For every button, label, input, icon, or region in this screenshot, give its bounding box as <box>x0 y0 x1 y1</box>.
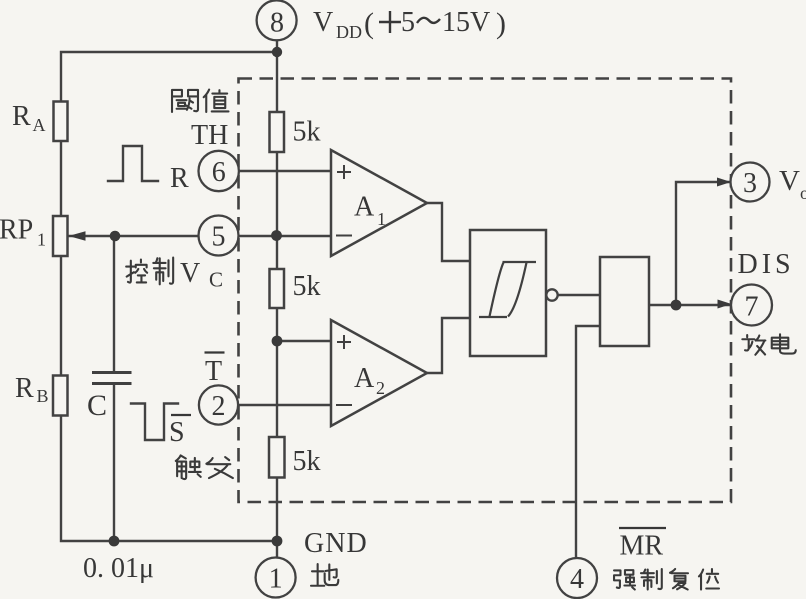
svg-text:5: 5 <box>401 7 415 38</box>
svg-text:5k: 5k <box>293 117 321 148</box>
svg-text:R: R <box>15 373 34 404</box>
svg-text:1: 1 <box>377 209 386 229</box>
svg-text:5k: 5k <box>293 446 321 477</box>
svg-text:MR: MR <box>620 531 664 562</box>
svg-text:R: R <box>12 101 31 132</box>
svg-text:2: 2 <box>376 378 385 398</box>
svg-text:1: 1 <box>269 564 283 595</box>
svg-text:2: 2 <box>212 391 226 422</box>
svg-text:4: 4 <box>570 564 584 595</box>
svg-text:0. 01μ: 0. 01μ <box>83 553 154 584</box>
svg-text:15V: 15V <box>442 7 490 38</box>
svg-text:8: 8 <box>270 8 284 39</box>
svg-text:DIS: DIS <box>738 249 795 280</box>
svg-text:A: A <box>354 192 375 223</box>
svg-text:1: 1 <box>37 230 46 250</box>
svg-text:V: V <box>779 165 800 197</box>
svg-text:V: V <box>313 7 333 38</box>
svg-text:(: ( <box>364 7 374 40</box>
svg-text:C: C <box>87 389 107 422</box>
svg-text:R: R <box>170 163 189 194</box>
svg-text:T: T <box>205 356 222 387</box>
svg-text:DD: DD <box>336 22 362 42</box>
svg-text:A: A <box>33 115 46 135</box>
svg-text:5: 5 <box>212 222 226 253</box>
svg-text:A: A <box>354 363 375 394</box>
svg-text:RP: RP <box>0 215 33 246</box>
svg-text:GND: GND <box>304 528 368 559</box>
svg-text:5k: 5k <box>293 271 321 302</box>
svg-text:6: 6 <box>212 157 226 188</box>
svg-text:V: V <box>180 258 200 289</box>
svg-text:3: 3 <box>743 168 757 199</box>
svg-text:): ) <box>496 7 506 40</box>
svg-text:o: o <box>800 183 806 203</box>
svg-text:C: C <box>209 268 223 292</box>
svg-text:B: B <box>37 386 49 406</box>
svg-text:S: S <box>169 417 185 448</box>
svg-text:TH: TH <box>191 120 228 151</box>
svg-text:7: 7 <box>745 292 759 323</box>
